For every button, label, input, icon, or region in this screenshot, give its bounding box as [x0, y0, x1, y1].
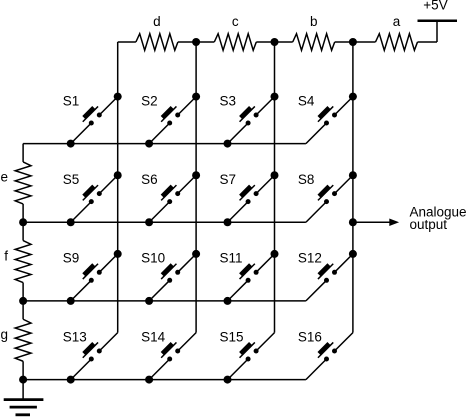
svg-text:S15: S15 — [220, 329, 244, 344]
svg-text:S9: S9 — [63, 251, 80, 266]
svg-text:S12: S12 — [298, 251, 322, 266]
svg-text:S3: S3 — [220, 93, 237, 108]
svg-text:S1: S1 — [63, 93, 80, 108]
svg-text:d: d — [153, 14, 161, 29]
svg-text:S5: S5 — [63, 172, 80, 187]
svg-text:S13: S13 — [63, 329, 87, 344]
svg-text:output: output — [410, 217, 448, 232]
svg-text:S16: S16 — [298, 329, 322, 344]
svg-text:b: b — [310, 14, 318, 29]
svg-text:S10: S10 — [141, 251, 165, 266]
svg-text:+5V: +5V — [423, 0, 447, 13]
svg-text:c: c — [232, 14, 239, 29]
svg-text:a: a — [393, 14, 401, 29]
svg-text:S7: S7 — [220, 172, 237, 187]
svg-text:g: g — [0, 327, 8, 342]
svg-text:S8: S8 — [298, 172, 315, 187]
svg-text:e: e — [0, 170, 8, 185]
svg-text:S2: S2 — [141, 93, 158, 108]
svg-text:S4: S4 — [298, 93, 315, 108]
svg-text:f: f — [4, 248, 8, 263]
svg-text:S11: S11 — [220, 251, 243, 266]
svg-text:S6: S6 — [141, 172, 158, 187]
svg-text:S14: S14 — [141, 329, 166, 344]
